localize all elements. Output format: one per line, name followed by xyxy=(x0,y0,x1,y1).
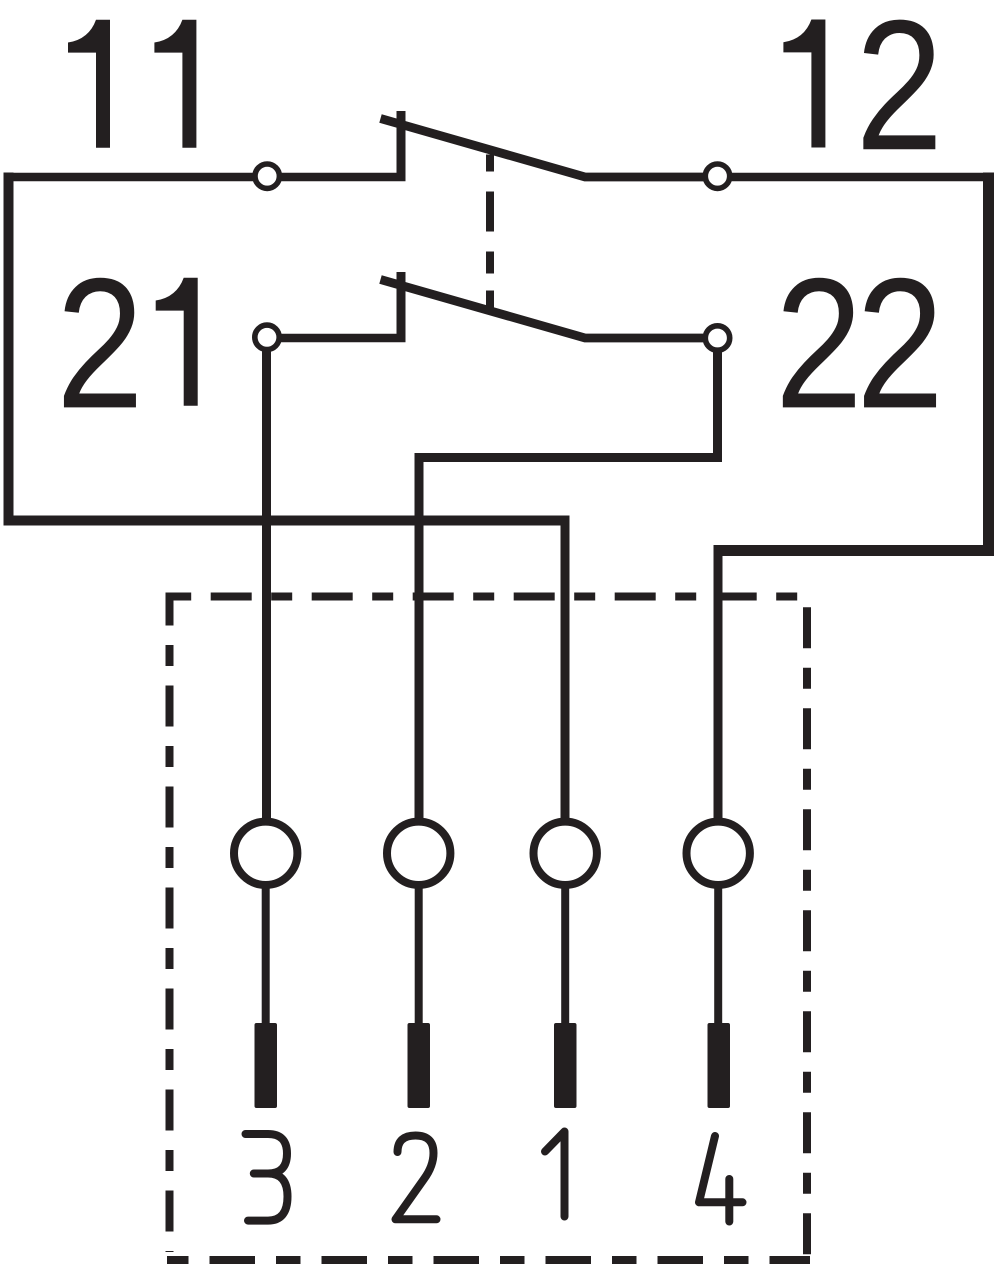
terminal circle 11 xyxy=(255,164,279,188)
wire terminal 12 to right frame xyxy=(731,173,990,182)
relay outline dashed box bottom edge xyxy=(167,1256,810,1264)
wire corner down to pin 2 xyxy=(415,453,424,818)
wire corner down to pin 4 xyxy=(714,545,723,818)
terminal circle 22 xyxy=(705,326,729,350)
wire socket 2 to pin 2 xyxy=(415,889,423,1026)
wire socket 4 to pin 4 xyxy=(714,889,722,1026)
pin 1 terminal blade xyxy=(554,1023,577,1108)
pin 4 terminal blade xyxy=(708,1023,731,1108)
wire frame bottom toward pin 1 xyxy=(4,516,570,526)
socket circle pin 4 xyxy=(687,822,750,885)
wire socket 3 to pin 3 xyxy=(262,889,270,1026)
svg-text:2: 2 xyxy=(56,239,144,447)
wire terminal 11 to contact post S1 xyxy=(280,173,406,182)
svg-text:2: 2 xyxy=(775,239,863,447)
wire right frame bottom toward pin 4 xyxy=(718,545,994,556)
svg-text:2: 2 xyxy=(856,239,944,447)
wire terminal 21 to contact post S2 xyxy=(280,334,406,343)
pin 3 terminal blade xyxy=(255,1023,278,1108)
relay outline dashed box left edge xyxy=(166,593,174,1253)
contact lever S1 (NC moving contact) and wire to terminal 12 xyxy=(381,119,705,178)
terminal circle 12 xyxy=(705,164,729,188)
wire terminal 21 down to pin 3 xyxy=(262,351,271,819)
wire 22 across left xyxy=(419,453,722,462)
label 12 xyxy=(783,0,943,189)
mechanical link (dashed) between levers xyxy=(486,155,494,312)
wire corner down to pin 1 xyxy=(561,516,570,819)
contact post S1 (fixed contact) xyxy=(397,111,406,181)
terminal circle 21 xyxy=(255,325,279,349)
relay outline dashed box top edge xyxy=(167,593,810,601)
pin label 3 xyxy=(246,1134,288,1221)
label 22 xyxy=(775,239,944,447)
wire socket 1 to pin 1 xyxy=(561,889,569,1026)
label 21 xyxy=(56,239,198,447)
svg-text:2: 2 xyxy=(855,0,943,189)
socket circle pin 3 xyxy=(234,822,297,885)
pin label 2 xyxy=(396,1136,437,1220)
contact lever S2 (NC moving contact) and wire to terminal 22 xyxy=(381,280,705,339)
wire frame right side down xyxy=(983,173,994,551)
pin label 4 xyxy=(699,1136,743,1222)
pin label 1 xyxy=(545,1132,565,1217)
wire terminal 22 down xyxy=(713,351,722,462)
socket circle pin 1 xyxy=(534,822,597,885)
wire left frame to terminal 11 xyxy=(4,173,255,182)
socket circle pin 2 xyxy=(387,822,450,885)
pin 2 terminal blade xyxy=(408,1023,431,1108)
contact post S2 (fixed contact) xyxy=(397,272,406,342)
label 11 xyxy=(68,20,196,148)
wire frame left side down to bottom xyxy=(4,173,14,521)
relay outline dashed box right edge xyxy=(803,593,811,1256)
